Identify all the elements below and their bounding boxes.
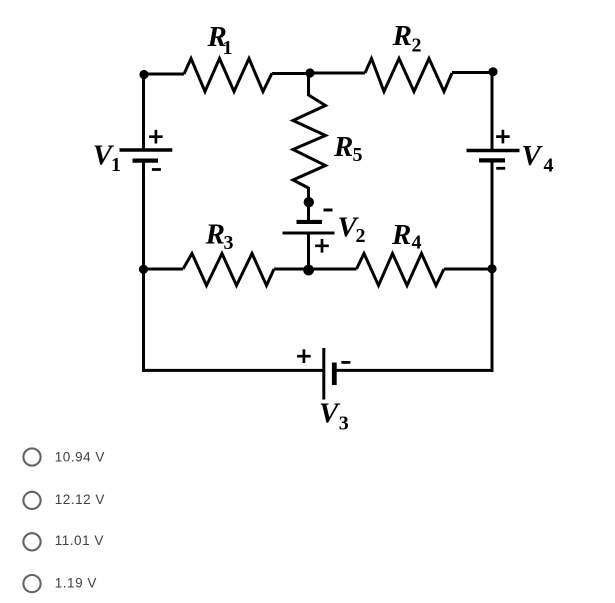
battery V3 plus sign — [297, 349, 311, 363]
battery V2 minus sign — [324, 209, 333, 212]
node: top-middle junction — [305, 68, 314, 77]
svg-text:V4: V4 — [522, 140, 554, 177]
wire: R4 to right node — [444, 268, 493, 271]
wire: bottom left (corner to V3 positive plate) — [142, 369, 324, 372]
svg-text:R1: R1 — [207, 21, 233, 59]
svg-text:V2: V2 — [338, 211, 366, 247]
battery V3 negative plate (short, vertical) — [332, 363, 337, 386]
radio button option 2 — [23, 492, 40, 509]
radio button option 3 — [23, 533, 40, 550]
node: middle-right junction — [487, 264, 496, 273]
svg-text:R5: R5 — [333, 131, 363, 166]
battery V1 positive plate (long) — [120, 148, 173, 151]
node: center bottom junction — [303, 265, 314, 276]
radio button option 1 — [23, 448, 40, 465]
resistor R3 — [183, 254, 274, 286]
node: junction between R5 and V2 — [304, 197, 314, 207]
resistor R5 — [293, 95, 326, 188]
node: top-right junction — [488, 67, 497, 76]
node: top-left junction — [139, 70, 148, 79]
battery V4 plus sign — [496, 130, 510, 144]
svg-text:10.94 V: 10.94 V — [55, 450, 105, 465]
wire: V2 positive plate to center bottom node — [307, 233, 310, 270]
wire: left vertical upper (top-left node to V1) — [142, 72, 145, 150]
wire: R5 bottom stub to node above V2 — [307, 187, 310, 203]
svg-text:V1: V1 — [93, 140, 121, 177]
svg-text:R4: R4 — [391, 219, 422, 254]
wire: R2 to top-right node — [452, 71, 493, 74]
battery V2 plus sign — [315, 239, 329, 253]
resistor R4 — [357, 254, 445, 286]
wire: R3 to center node — [274, 268, 310, 271]
resistor R2 — [365, 59, 452, 92]
wire: left vertical lower (V1 to bottom-left corner) — [142, 160, 145, 372]
svg-text:V3: V3 — [319, 398, 349, 435]
battery V4 minus sign — [496, 167, 505, 170]
wire: middle row, left node to R3 — [142, 268, 183, 271]
wire: bottom right (V3 negative plate to corner) — [334, 369, 494, 372]
wire: top-left node to R1 — [144, 73, 184, 76]
wire: right vertical lower (V4 to bottom-right corner) — [491, 161, 494, 372]
wire: R1 to top-middle node — [272, 72, 310, 75]
radio button option 4 — [23, 575, 40, 592]
battery V4 negative plate (short) — [479, 158, 505, 162]
svg-text:12.12 V: 12.12 V — [55, 492, 105, 507]
svg-text:1.19 V: 1.19 V — [55, 575, 97, 590]
battery V1 negative plate (short) — [133, 158, 159, 162]
svg-text:11.01 V: 11.01 V — [55, 533, 104, 548]
resistor R1 — [184, 59, 272, 92]
battery V1 plus sign — [149, 130, 163, 144]
wire: right vertical upper (top-right node to V4) — [491, 71, 494, 151]
wire: V2 stub, node to negative plate — [307, 202, 310, 221]
svg-text:R2: R2 — [392, 20, 422, 56]
battery V4 positive plate (long) — [467, 149, 520, 152]
wire: center node to R4 — [307, 268, 357, 271]
wire: R5 top stub from top-middle node — [307, 72, 310, 96]
battery V2 positive plate (long, bottom) — [283, 232, 335, 235]
battery V1 minus sign — [152, 168, 161, 171]
node: middle-left junction — [139, 265, 148, 274]
wire: top-middle node to R2 — [308, 72, 365, 75]
battery V3 positive plate (long, vertical) — [322, 348, 325, 400]
svg-text:R3: R3 — [205, 219, 234, 254]
battery V3 minus sign — [341, 361, 350, 364]
battery V2 negative plate (short, top) — [297, 220, 323, 224]
